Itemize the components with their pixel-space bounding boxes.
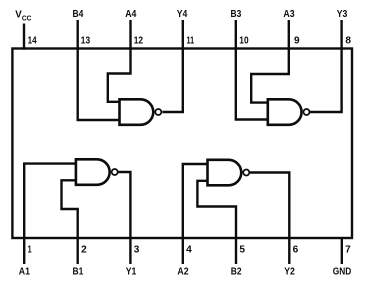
IC package outline [12,49,352,239]
svg-text:2: 2 [81,245,87,256]
svg-text:Y4: Y4 [177,8,188,20]
svg-text:A3: A3 [283,8,294,20]
svg-text:12: 12 [134,35,144,46]
svg-text:3: 3 [134,245,140,256]
svg-text:7: 7 [345,245,351,256]
pin 4 stub and wire to gate U1b input A [183,164,208,264]
wire: gate U1c output to pin 8 stub [310,20,342,112]
svg-text:1: 1 [28,245,32,256]
pin 14 VCC stub [23,24,25,50]
nand gate U1b (inputs 4,5 ; output 6) [208,160,250,186]
svg-text:Y3: Y3 [337,8,348,20]
pin 2 stub and jogged wire to gate U1a input B [62,180,78,264]
svg-text:8: 8 [345,35,351,46]
wire: gate U1d output to pin 11 stub [162,20,183,112]
svg-text:V: V [15,9,22,21]
net label VCC [15,9,31,23]
svg-text:13: 13 [81,35,91,46]
svg-text:A2: A2 [177,265,188,277]
svg-text:A4: A4 [125,8,136,20]
svg-text:6: 6 [293,245,299,256]
svg-text:14: 14 [28,36,37,47]
pin 13 stub and wire to gate U1d input B [78,20,120,120]
svg-text:B4: B4 [73,8,84,20]
svg-text:B3: B3 [231,8,242,20]
svg-text:GND: GND [333,265,352,277]
pin 7 GND stub [341,238,343,264]
pin 10 stub and wire to gate U1c input B [236,20,268,120]
svg-text:A1: A1 [19,265,30,277]
svg-text:Y2: Y2 [284,265,295,277]
pin 9 stub and jogged wire to gate U1c input A [251,20,289,103]
svg-text:CC: CC [22,14,32,23]
nand gate U1c (inputs 10,9 ; output 8) [268,99,310,125]
svg-text:11: 11 [187,35,195,46]
pin 12 stub and jogged wire to gate U1d input A [108,20,131,102]
svg-text:10: 10 [239,35,249,46]
pin 5 stub and jogged wire to gate U1b input B [197,181,236,264]
svg-text:B2: B2 [231,265,242,277]
svg-text:B1: B1 [73,265,84,277]
svg-text:5: 5 [239,245,245,256]
wire: gate U1a output to pin 3 stub [118,172,130,264]
nand gate U1d (inputs 13,12 ; output 11) [120,99,162,125]
svg-text:4: 4 [186,245,192,256]
svg-text:Y1: Y1 [126,265,137,277]
wire: gate U1b output to pin 6 stub [250,173,289,265]
pin 1 stub and wire to gate U1a input A [24,164,76,264]
svg-text:9: 9 [294,35,300,46]
nand gate U1a (inputs 1,2 ; output 3) [76,159,118,185]
